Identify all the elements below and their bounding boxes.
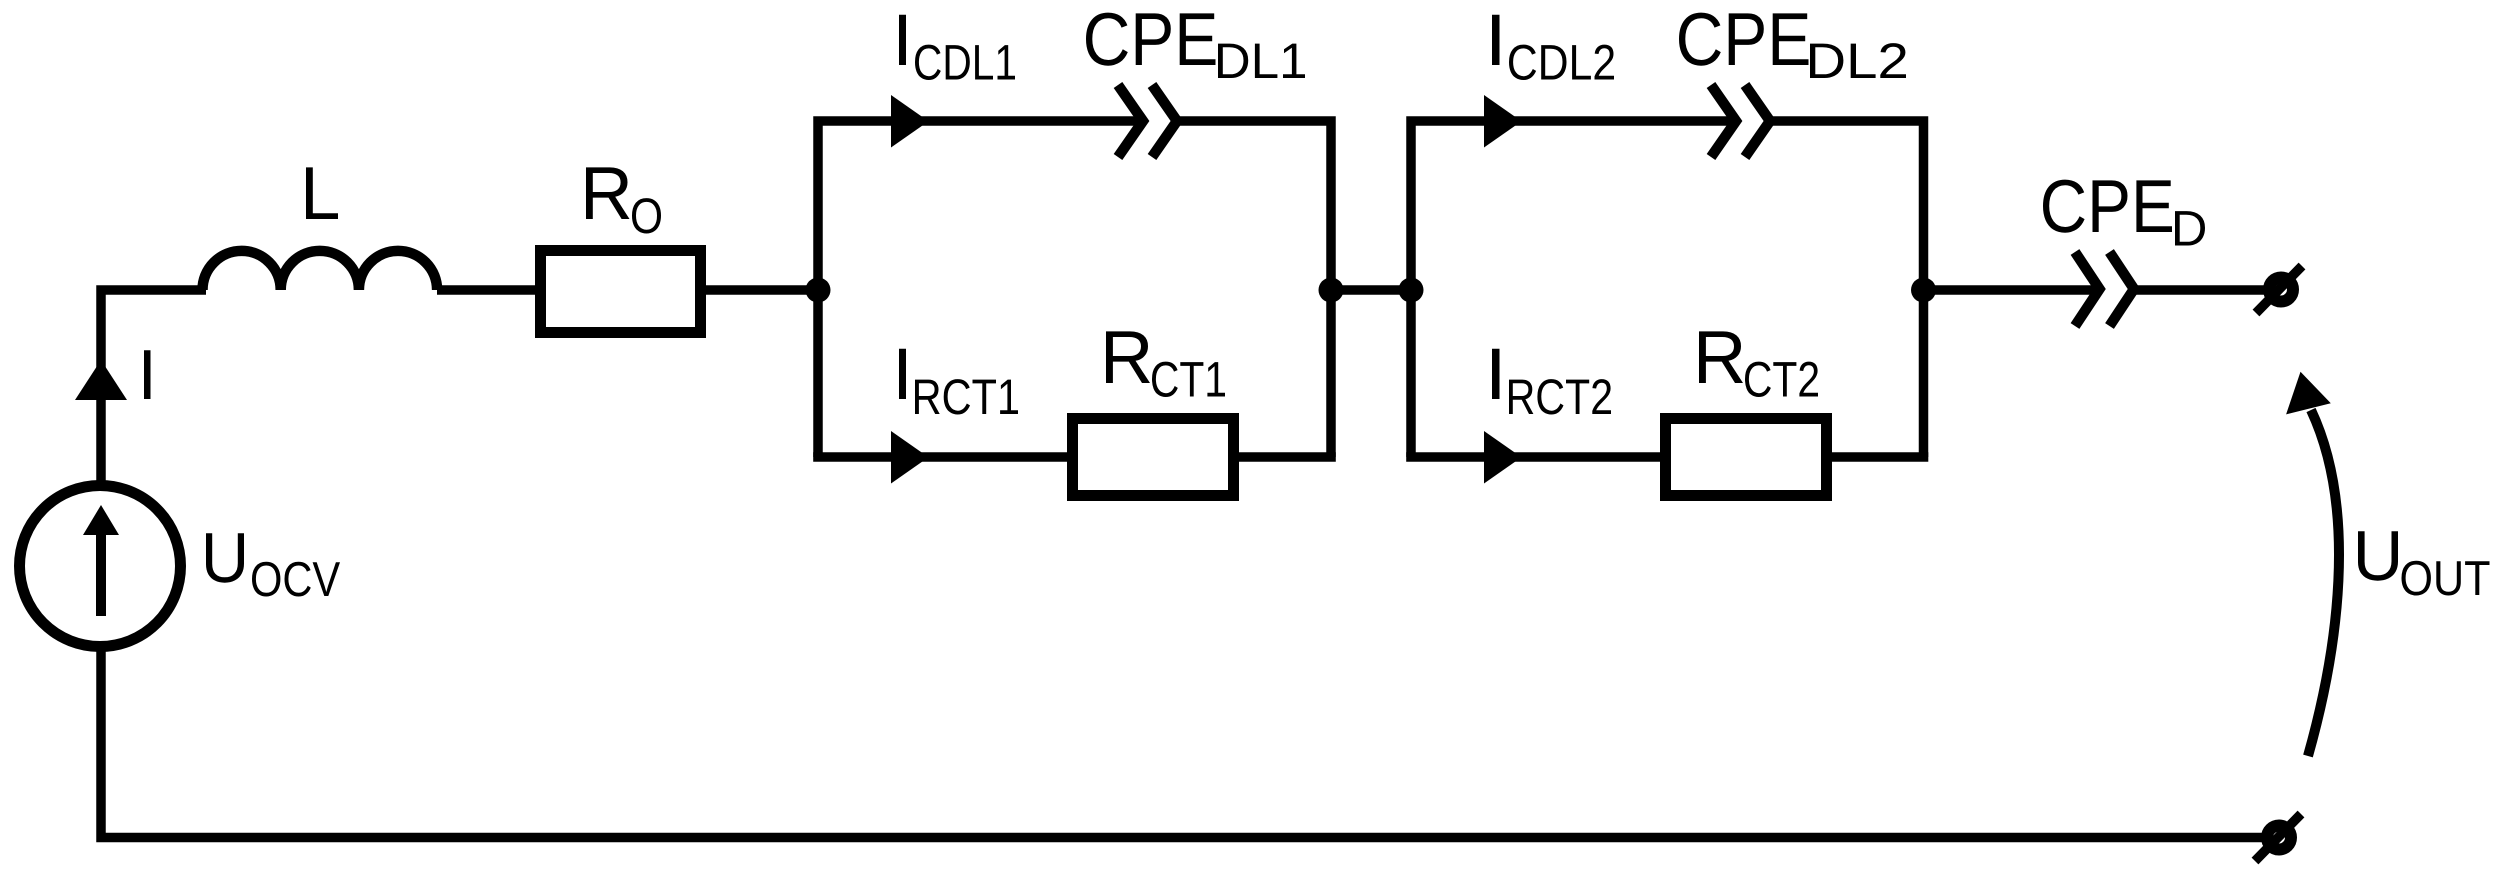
wire: CPE_D to output terminal <box>2134 285 2266 295</box>
series element CPE_D (double chevron) <box>2075 252 2134 326</box>
voltage source internal arrow <box>83 505 119 616</box>
block 1 left vertical and top-left branch wire <box>818 121 1143 457</box>
resistor R_CT2 <box>1666 419 1827 496</box>
wire: node B to node C <box>1331 285 1411 295</box>
block 1 top-right branch wire and right vertical <box>1177 121 1331 457</box>
label CPE_D <box>2043 180 2205 246</box>
label R_CT1 <box>1106 331 1225 397</box>
wire: node D to CPE_D <box>1924 285 2100 295</box>
block 2 top-right branch wire and right vertical <box>1770 121 1924 457</box>
inductor L <box>203 251 438 290</box>
label U_OCV <box>206 533 340 596</box>
label U_OUT <box>2358 531 2490 595</box>
branch arrow I_RCT2 <box>1484 431 1522 484</box>
label CPE_DL1 <box>1086 13 1305 78</box>
label I_RCT1 <box>899 349 1018 415</box>
wire: R_O to node A <box>706 285 823 295</box>
current arrow I <box>75 360 127 400</box>
label I_CDL1 <box>899 15 1015 80</box>
bottom return wire <box>101 650 2263 838</box>
branch arrow I_CDL2 <box>1484 95 1522 148</box>
label I_RCT2 <box>1492 349 1611 415</box>
node C junction dot <box>1399 278 1424 303</box>
node A junction dot <box>806 278 831 303</box>
block 2 left vertical and top-left branch wire <box>1411 121 1736 457</box>
label L <box>306 167 338 219</box>
U_OUT arrowhead <box>2286 372 2331 415</box>
U_OUT measurement curved arrow <box>2308 410 2339 756</box>
label I_CDL2 <box>1492 15 1614 80</box>
capacitor-like element CPE_DL2 (double chevron) <box>1711 85 1770 157</box>
voltage source U_OCV <box>20 486 181 647</box>
label I (current) <box>144 350 151 399</box>
wire: source to top-left corner to inductor <box>101 290 206 481</box>
label R_CT2 <box>1699 331 1818 397</box>
branch arrow I_RCT1 <box>891 431 929 484</box>
label R_O <box>586 167 661 233</box>
output terminal (top) <box>2256 266 2302 313</box>
wire: inductor to R_O <box>437 285 540 295</box>
node B junction dot <box>1319 278 1344 303</box>
block 2 bottom branch right wire <box>1827 452 1928 462</box>
capacitor-like element CPE_DL1 (double chevron) <box>1118 85 1177 157</box>
block 1 bottom branch right wire <box>1234 452 1336 462</box>
resistor R_CT1 <box>1073 419 1234 496</box>
resistor R_O <box>541 251 701 333</box>
node D junction dot <box>1911 278 1936 303</box>
block 1 bottom branch left wire <box>813 452 1072 462</box>
block 2 bottom branch left wire <box>1406 452 1665 462</box>
output terminal (bottom) <box>2255 814 2301 861</box>
branch arrow I_CDL1 <box>891 95 929 148</box>
label CPE_DL2 <box>1679 13 1906 78</box>
